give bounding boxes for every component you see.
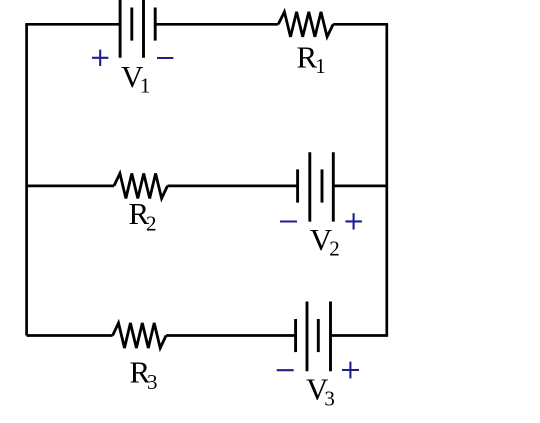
polarity plus V3 bbox=[342, 362, 359, 379]
svg-text:3: 3 bbox=[324, 386, 335, 410]
polarity minus V2 bbox=[280, 220, 297, 222]
polarity plus V1 bbox=[92, 50, 108, 66]
label V3 bbox=[306, 371, 335, 410]
label R1 bbox=[297, 39, 326, 78]
polarity plus V2 bbox=[345, 213, 362, 229]
label V2 bbox=[310, 222, 340, 260]
wire R2 to V2 bbox=[168, 185, 298, 188]
battery V2 bbox=[298, 152, 334, 221]
label R3 bbox=[130, 354, 158, 394]
wire V1 to R1 bbox=[155, 23, 278, 26]
svg-text:1: 1 bbox=[315, 54, 326, 78]
resistor R3 bbox=[113, 323, 167, 348]
svg-text:2: 2 bbox=[146, 212, 157, 236]
wire V2 to middle-right bbox=[333, 185, 387, 188]
svg-text:3: 3 bbox=[147, 370, 158, 394]
wire R1 to top-right corner bbox=[333, 23, 388, 26]
resistor R2 bbox=[114, 173, 168, 198]
resistor R1 bbox=[278, 12, 333, 37]
battery V3 bbox=[296, 302, 331, 372]
polarity minus V3 bbox=[277, 369, 294, 371]
svg-text:1: 1 bbox=[140, 74, 151, 98]
wire right vertical bbox=[385, 24, 388, 335]
wire left vertical bbox=[25, 24, 28, 335]
label R2 bbox=[129, 196, 157, 236]
label V1 bbox=[121, 59, 150, 98]
wire bottom-left to R3 bbox=[27, 334, 113, 337]
polarity minus V1 bbox=[157, 57, 173, 59]
svg-text:2: 2 bbox=[329, 236, 340, 260]
wire V3 to bottom-right corner bbox=[331, 334, 389, 337]
wire R3 to V3 bbox=[166, 334, 296, 337]
wire top-left to V1 bbox=[25, 23, 120, 26]
battery V1 bbox=[120, 0, 155, 58]
wire middle-left to R2 bbox=[27, 185, 114, 188]
